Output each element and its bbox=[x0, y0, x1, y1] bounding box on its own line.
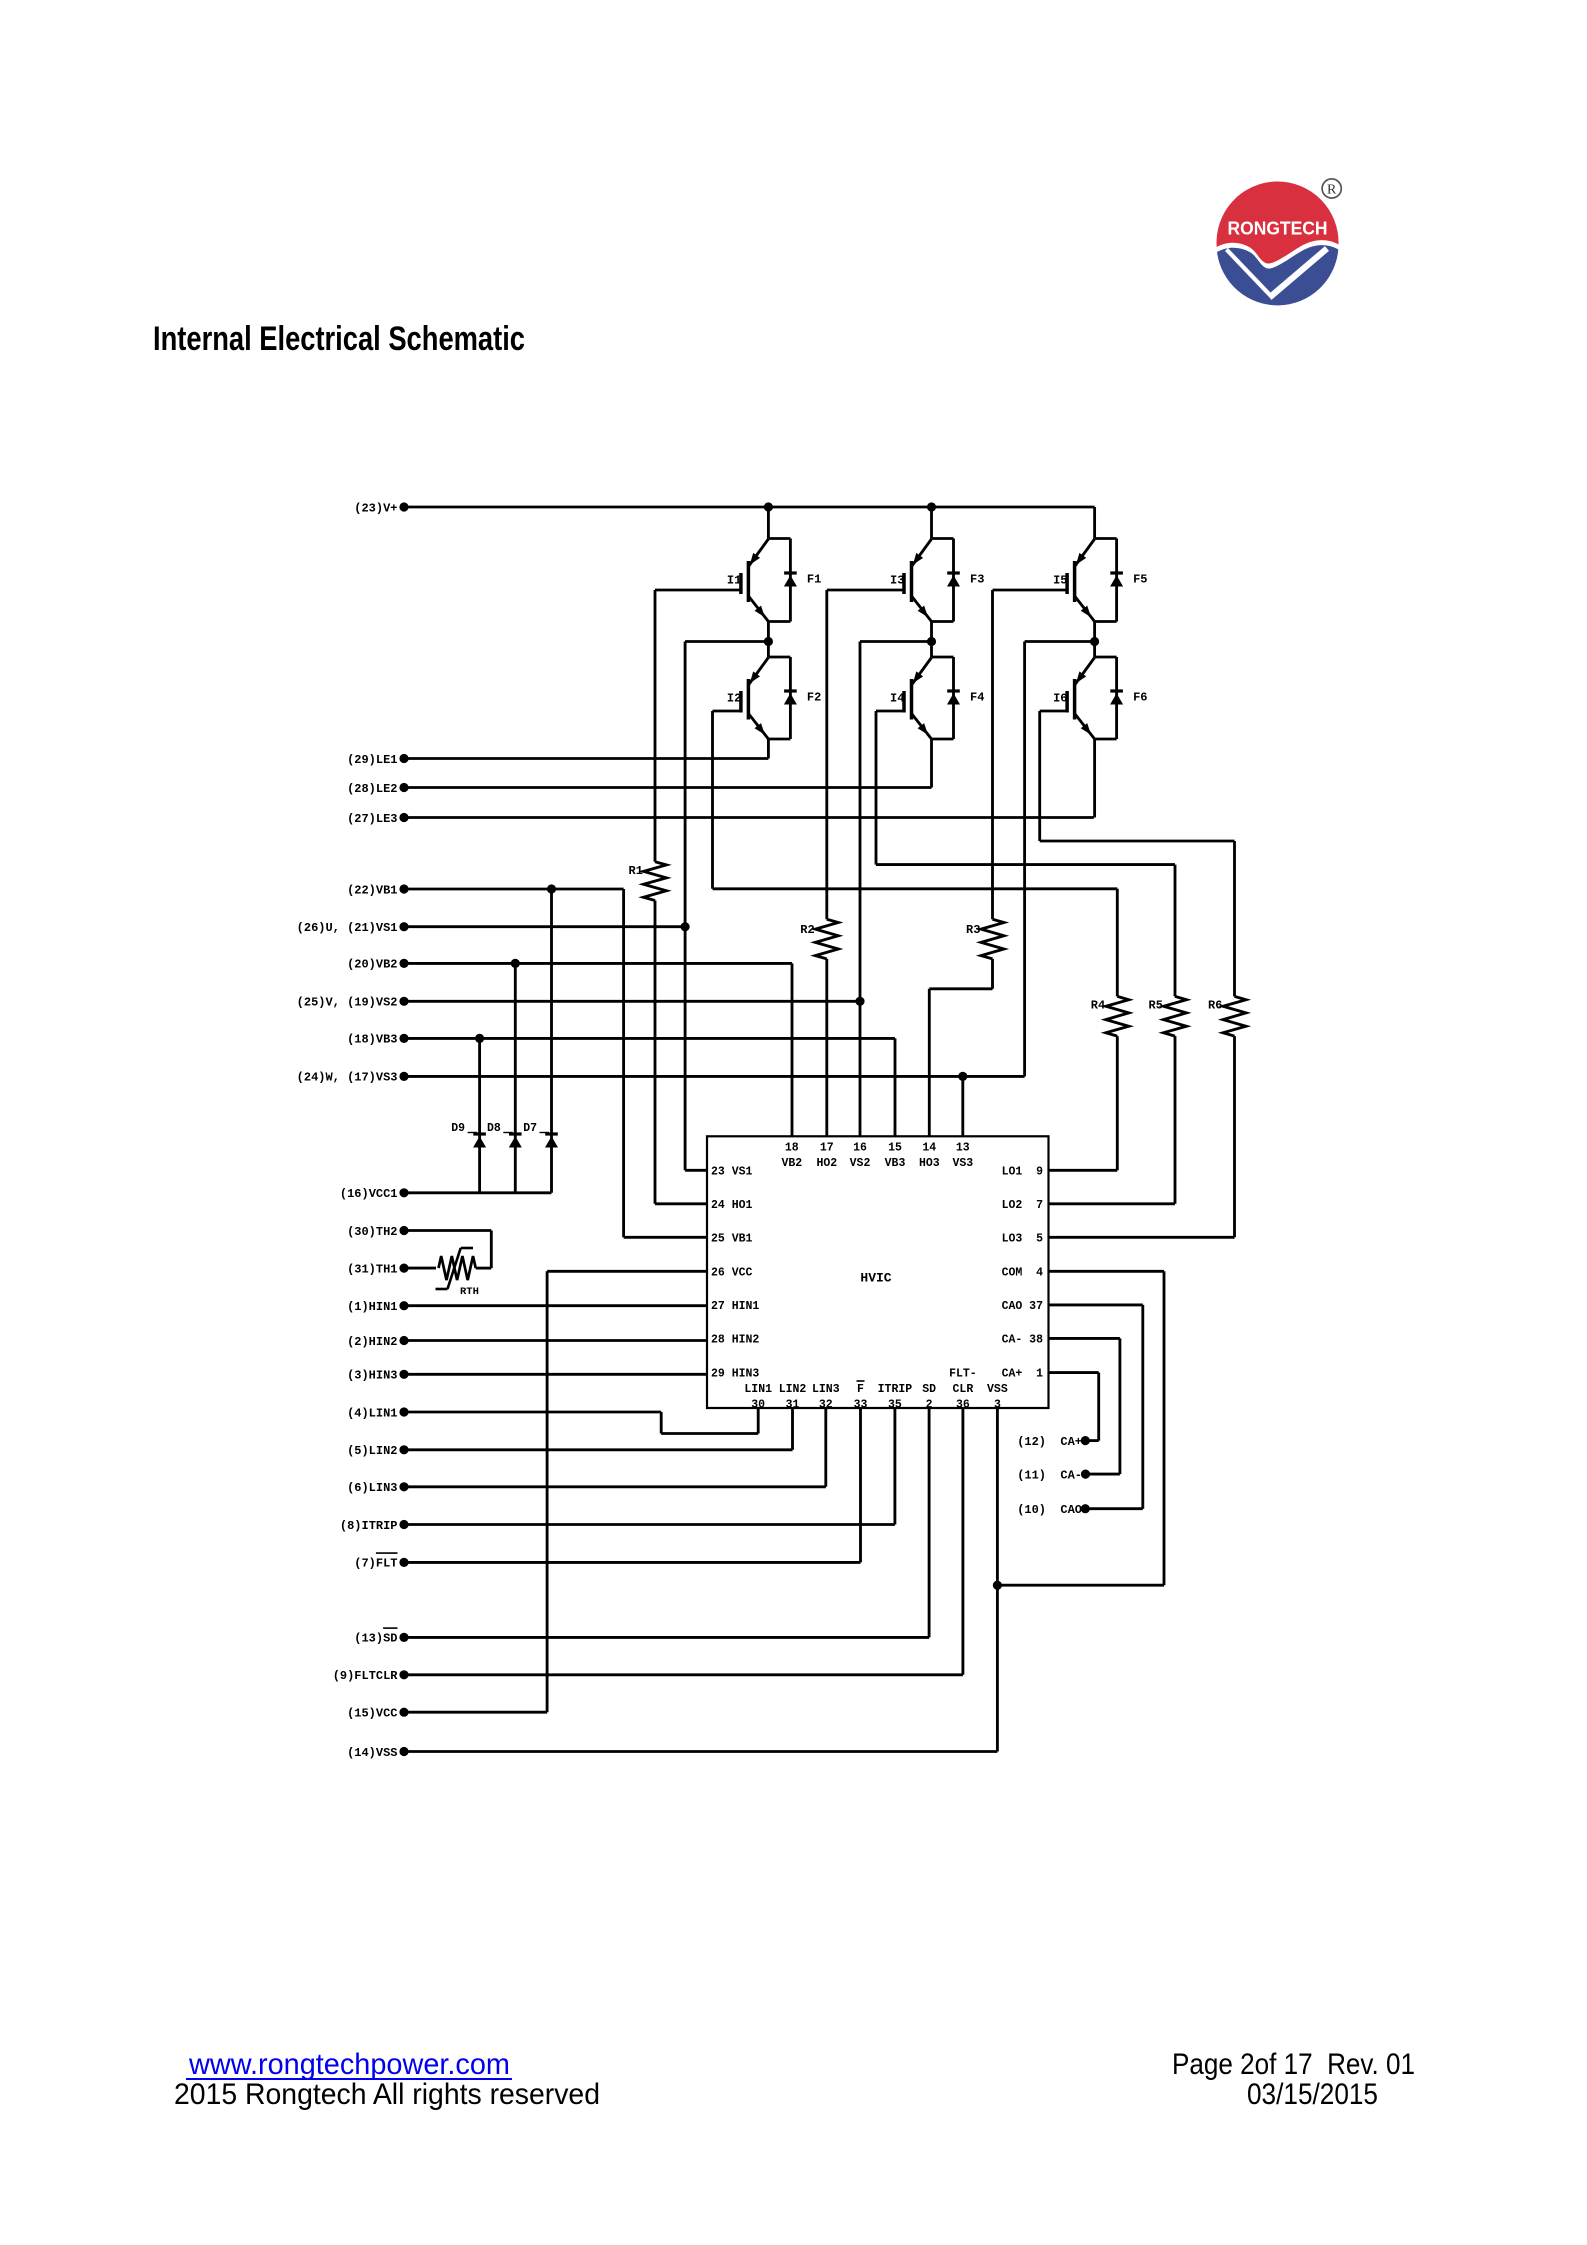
svg-text:CLR: CLR bbox=[953, 1383, 974, 1396]
wire VB1 bus to pin 25 bbox=[622, 889, 625, 1237]
wire LIN1 jog to pin 30 bbox=[660, 1412, 663, 1434]
transistor I4 (IGBT, leg2 low) bbox=[930, 642, 933, 658]
resistor R4: LO1 gate resistor bbox=[1116, 889, 1119, 997]
svg-text:R1: R1 bbox=[629, 864, 643, 878]
svg-text:I4: I4 bbox=[890, 691, 904, 705]
svg-text:LO3 5: LO3 5 bbox=[1002, 1232, 1044, 1245]
wire LIN3 to pin 32 bbox=[824, 1408, 827, 1487]
svg-text:VB3: VB3 bbox=[885, 1157, 906, 1170]
transistor I3 (IGBT, leg2 high) bbox=[930, 507, 933, 539]
junction VB2/D8 bbox=[511, 959, 520, 968]
svg-text:RONGTECH: RONGTECH bbox=[1228, 218, 1328, 239]
wire HO3 to I5 gate bbox=[993, 589, 1068, 592]
svg-text:27 HIN1: 27 HIN1 bbox=[711, 1300, 759, 1313]
wire VS1 bus: midpoint1 to pin 23 bbox=[684, 642, 687, 1171]
svg-text:D7: D7 bbox=[523, 1122, 537, 1135]
wire I2 gate bus down to R4 feed bbox=[711, 711, 714, 889]
junction VB1/D7 bbox=[547, 884, 556, 893]
svg-text:I2: I2 bbox=[727, 691, 741, 705]
svg-text:F4: F4 bbox=[970, 690, 984, 704]
svg-text:HO3: HO3 bbox=[919, 1157, 940, 1170]
svg-text:I5: I5 bbox=[1053, 573, 1067, 587]
svg-text:(23)V+: (23)V+ bbox=[354, 501, 397, 515]
wire VS3 line to pin 13 bbox=[961, 1076, 964, 1136]
svg-text:(28)LE2: (28)LE2 bbox=[347, 782, 397, 796]
svg-text:(15)VCC: (15)VCC bbox=[347, 1707, 397, 1721]
svg-text:(30)TH2: (30)TH2 bbox=[347, 1225, 397, 1239]
svg-text:CA+ 1: CA+ 1 bbox=[1002, 1368, 1044, 1381]
wire I6 emitter to LE3 bbox=[1093, 739, 1096, 818]
wire VB3 bus to pin 15 bbox=[894, 1038, 897, 1136]
svg-text:R3: R3 bbox=[966, 923, 980, 937]
svg-text:F3: F3 bbox=[970, 572, 984, 586]
svg-text:CA- 38: CA- 38 bbox=[1002, 1334, 1044, 1347]
svg-text:LIN1: LIN1 bbox=[744, 1383, 772, 1396]
svg-text:I6: I6 bbox=[1053, 691, 1067, 705]
wire LO3 to I6 gate bbox=[1040, 710, 1067, 713]
wire I2 emitter to LE1 bbox=[767, 739, 770, 759]
svg-text:23 VS1: 23 VS1 bbox=[711, 1165, 753, 1178]
transistor I1 (IGBT, leg1 high) bbox=[767, 507, 770, 539]
wire ITRIP to pin 35 bbox=[893, 1408, 896, 1525]
node U midpoint leg1 bbox=[764, 637, 773, 646]
wire VSS to pin 3 bbox=[996, 1408, 999, 1752]
diode F4 freewheel of I4 bbox=[952, 657, 955, 739]
svg-text:(24)W, (17)VS3: (24)W, (17)VS3 bbox=[297, 1071, 398, 1085]
wire CAO pin 37 to terminal (10)CAO bbox=[1049, 1303, 1143, 1306]
wire VS3 mid bus bbox=[1023, 642, 1026, 1077]
resistor R1 bus: I1 gate to pin 24 HO1 bbox=[654, 590, 657, 862]
svg-text:(18)VB3: (18)VB3 bbox=[347, 1033, 397, 1047]
svg-text:R: R bbox=[1327, 182, 1337, 197]
wire COM pin 4 return to VSS bbox=[1049, 1270, 1165, 1273]
svg-text:HO2: HO2 bbox=[816, 1157, 837, 1170]
svg-text:LIN3: LIN3 bbox=[812, 1383, 840, 1396]
svg-text:(13)SD: (13)SD bbox=[354, 1632, 397, 1646]
transistor I6 (IGBT, leg3 low) bbox=[1093, 642, 1096, 658]
svg-text:18: 18 bbox=[785, 1141, 799, 1154]
svg-text:(27)LE3: (27)LE3 bbox=[347, 812, 397, 826]
svg-text:CAO 37: CAO 37 bbox=[1002, 1300, 1044, 1313]
diode D9 bootstrap bbox=[478, 1038, 481, 1192]
diode F1 freewheel of I1 bbox=[789, 539, 792, 622]
resistor R3 bus: I5 gate to pin 14 HO3 bbox=[991, 590, 994, 919]
transistor I2 (IGBT, leg1 low) bbox=[767, 642, 770, 658]
svg-text:25 VB1: 25 VB1 bbox=[711, 1232, 753, 1245]
svg-text:2015 Rongtech All rights reser: 2015 Rongtech All rights reserved bbox=[174, 2078, 600, 2111]
junction VSS / COM return bbox=[993, 1581, 1002, 1590]
diode D8 bootstrap bbox=[514, 963, 517, 1192]
svg-text:RTH: RTH bbox=[460, 1286, 479, 1298]
wire I6 gate bus down to R6 feed bbox=[1038, 711, 1041, 841]
node V midpoint leg2 bbox=[927, 637, 936, 646]
svg-text:F5: F5 bbox=[1133, 572, 1147, 586]
wire CA+ pin 1 to terminal (12)CA+ bbox=[1049, 1371, 1099, 1374]
wire VCC bus pin 26 down to VCC terminal bbox=[547, 1270, 707, 1273]
svg-text:HVIC: HVIC bbox=[860, 1271, 891, 1286]
svg-text:R6: R6 bbox=[1208, 998, 1222, 1012]
svg-text:14: 14 bbox=[922, 1141, 936, 1154]
svg-text:www.rongtechpower.com: www.rongtechpower.com bbox=[188, 2048, 510, 2081]
junction VS3 line / pin13 bus bbox=[958, 1072, 967, 1081]
svg-text:SD: SD bbox=[922, 1383, 936, 1396]
diode F6 freewheel of I6 bbox=[1115, 657, 1118, 739]
svg-text:(14)VSS: (14)VSS bbox=[347, 1746, 397, 1760]
junction VS2 line / VS2 bus bbox=[855, 997, 864, 1006]
wire VB2 bus to pin 18 bbox=[791, 963, 794, 1136]
svg-text:LIN2: LIN2 bbox=[779, 1383, 807, 1396]
diode F3 freewheel of I3 bbox=[952, 539, 955, 622]
junction V+ / leg2 bbox=[927, 502, 936, 511]
diode F2 freewheel of I2 bbox=[789, 657, 792, 739]
svg-text:(16)VCC1: (16)VCC1 bbox=[340, 1187, 398, 1201]
diode F5 freewheel of I5 bbox=[1115, 539, 1118, 622]
svg-text:F2: F2 bbox=[807, 690, 821, 704]
svg-text:24 HO1: 24 HO1 bbox=[711, 1199, 753, 1212]
svg-text:(20)VB2: (20)VB2 bbox=[347, 958, 397, 972]
wire midpoint1 to VS1 bus bbox=[685, 640, 768, 643]
svg-text:(25)V, (19)VS2: (25)V, (19)VS2 bbox=[297, 996, 398, 1010]
svg-text:LO1 9: LO1 9 bbox=[1002, 1165, 1044, 1178]
resistor R5: LO2 gate resistor bbox=[1174, 865, 1177, 997]
svg-text:Page 2of 17 Rev. 01: Page 2of 17 Rev. 01 bbox=[1172, 2048, 1415, 2081]
svg-text:VS2: VS2 bbox=[850, 1157, 871, 1170]
wire midpoint2 to VS2 bus bbox=[860, 640, 932, 643]
junction V+ / leg1 bbox=[764, 502, 773, 511]
thermistor RTH bbox=[439, 1256, 476, 1280]
wire CA- pin 38 to terminal (11)CA- bbox=[1049, 1337, 1120, 1340]
junction VS1 line / VS1 bus bbox=[681, 922, 690, 931]
svg-text:VS3: VS3 bbox=[952, 1157, 973, 1170]
svg-text:D9: D9 bbox=[451, 1122, 465, 1135]
svg-text:(31)TH1: (31)TH1 bbox=[347, 1262, 397, 1276]
svg-text:16: 16 bbox=[853, 1141, 867, 1154]
svg-text:(11) CA-: (11) CA- bbox=[1017, 1468, 1082, 1482]
svg-text:13: 13 bbox=[956, 1141, 970, 1154]
svg-text:COM 4: COM 4 bbox=[1002, 1266, 1044, 1279]
svg-text:R5: R5 bbox=[1149, 998, 1163, 1012]
wire TH2 to RTH bbox=[490, 1231, 493, 1269]
wire midpoint3 to VS3 bus bbox=[1025, 640, 1095, 643]
svg-text:(5)LIN2: (5)LIN2 bbox=[347, 1444, 397, 1458]
svg-text:(6)LIN3: (6)LIN3 bbox=[347, 1481, 397, 1495]
svg-text:(8)ITRIP: (8)ITRIP bbox=[340, 1519, 398, 1533]
svg-text:(29)LE1: (29)LE1 bbox=[347, 753, 397, 767]
svg-text:R2: R2 bbox=[800, 923, 814, 937]
svg-text:03/15/2015: 03/15/2015 bbox=[1247, 2078, 1378, 2111]
svg-text:F6: F6 bbox=[1133, 690, 1147, 704]
wire LO1 to I2 gate bbox=[713, 710, 741, 713]
svg-text:(22)VB1: (22)VB1 bbox=[347, 883, 397, 897]
wire HO2 to I3 gate bbox=[827, 589, 904, 592]
svg-text:26 VCC: 26 VCC bbox=[711, 1266, 753, 1279]
svg-text:VB2: VB2 bbox=[781, 1157, 802, 1170]
wire SD to pin 2 bbox=[928, 1408, 931, 1637]
svg-text:D8: D8 bbox=[487, 1122, 501, 1135]
svg-text:(1)HIN1: (1)HIN1 bbox=[347, 1300, 397, 1314]
svg-text:Internal Electrical Schematic: Internal Electrical Schematic bbox=[153, 320, 525, 358]
wire I4 emitter to LE2 bbox=[930, 739, 933, 788]
svg-text:(7)FLT: (7)FLT bbox=[354, 1557, 397, 1571]
svg-text:LO2 7: LO2 7 bbox=[1002, 1199, 1044, 1212]
wire LO2 to I4 gate bbox=[876, 710, 904, 713]
resistor R6: LO3 gate resistor bbox=[1233, 841, 1236, 996]
wire I4 gate bus down to R5 feed bbox=[875, 711, 878, 865]
svg-text:17: 17 bbox=[820, 1141, 834, 1154]
svg-text:(26)U, (21)VS1: (26)U, (21)VS1 bbox=[297, 921, 398, 935]
svg-text:(10) CAO: (10) CAO bbox=[1017, 1503, 1082, 1517]
wire FLT to pin 33 bbox=[859, 1408, 862, 1562]
Rongtech logo bbox=[1217, 179, 1342, 305]
transistor I5 (IGBT, leg3 high) bbox=[1093, 507, 1096, 539]
wire FLTCLR to pin 36 bbox=[961, 1408, 964, 1675]
svg-text:F: F bbox=[857, 1383, 864, 1396]
svg-text:VSS: VSS bbox=[987, 1383, 1008, 1396]
svg-text:29 HIN3: 29 HIN3 bbox=[711, 1368, 759, 1381]
resistor R2 bus: I3 gate to pin 17 HO2 bbox=[825, 590, 828, 919]
diode D7 bootstrap bbox=[550, 889, 553, 1193]
svg-text:(12) CA+: (12) CA+ bbox=[1017, 1435, 1082, 1449]
svg-text:FLT-: FLT- bbox=[949, 1368, 977, 1381]
svg-text:(9)FLTCLR: (9)FLTCLR bbox=[333, 1669, 399, 1683]
svg-text:(2)HIN2: (2)HIN2 bbox=[347, 1335, 397, 1349]
svg-text:F1: F1 bbox=[807, 572, 821, 586]
wire LIN2 to pin 31 bbox=[791, 1408, 794, 1450]
svg-text:(4)LIN1: (4)LIN1 bbox=[347, 1406, 397, 1420]
svg-text:I3: I3 bbox=[890, 573, 904, 587]
svg-text:(3)HIN3: (3)HIN3 bbox=[347, 1369, 397, 1383]
svg-text:15: 15 bbox=[888, 1141, 902, 1154]
wire HO1 to I1 gate bbox=[655, 589, 741, 592]
svg-text:ITRIP: ITRIP bbox=[878, 1383, 913, 1396]
svg-text:28 HIN2: 28 HIN2 bbox=[711, 1334, 759, 1347]
svg-text:I1: I1 bbox=[727, 573, 741, 587]
svg-text:R4: R4 bbox=[1091, 998, 1105, 1012]
node W midpoint leg3 bbox=[1090, 637, 1099, 646]
junction VB3/D9 bbox=[475, 1034, 484, 1043]
wire VS2 bus: midpoint2 to pin 16 bbox=[859, 642, 862, 1137]
op-amp U1: HVIC driver box bbox=[707, 1136, 1049, 1408]
